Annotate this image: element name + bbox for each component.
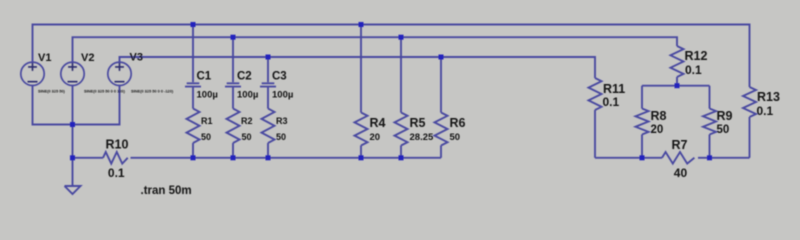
- svg-text:0.1: 0.1: [603, 95, 620, 109]
- svg-text:100µ: 100µ: [237, 90, 258, 101]
- svg-text:50: 50: [276, 132, 286, 142]
- svg-text:0.1: 0.1: [108, 166, 125, 180]
- svg-text:50: 50: [242, 132, 252, 142]
- svg-text:R8: R8: [651, 109, 667, 123]
- svg-text:28.25: 28.25: [410, 132, 434, 143]
- svg-text:C3: C3: [272, 71, 287, 83]
- svg-text:0.1: 0.1: [685, 63, 702, 77]
- svg-text:SINE(0 325 50 0 0 120): SINE(0 325 50 0 0 120): [84, 89, 126, 94]
- svg-text:R11: R11: [603, 82, 625, 96]
- svg-text:V3: V3: [130, 52, 143, 64]
- svg-text:V2: V2: [81, 52, 94, 64]
- svg-text:50: 50: [450, 132, 461, 143]
- svg-text:50: 50: [201, 132, 211, 142]
- svg-text:20: 20: [370, 132, 381, 143]
- svg-text:0.1: 0.1: [757, 104, 774, 118]
- svg-text:R5: R5: [410, 116, 426, 130]
- svg-text:R7: R7: [672, 138, 688, 152]
- svg-text:V1: V1: [38, 52, 51, 64]
- svg-text:SINE(0 325 50 0 0 -120): SINE(0 325 50 0 0 -120): [131, 89, 174, 94]
- svg-text:R2: R2: [241, 116, 253, 126]
- svg-text:R12: R12: [685, 49, 708, 63]
- svg-text:SINE(0 325 50): SINE(0 325 50): [38, 89, 66, 94]
- svg-text:.tran 50m: .tran 50m: [141, 185, 192, 197]
- svg-text:C2: C2: [237, 71, 252, 83]
- svg-text:40: 40: [674, 166, 688, 180]
- svg-text:R13: R13: [757, 90, 780, 104]
- svg-text:R3: R3: [276, 116, 288, 126]
- svg-text:20: 20: [651, 124, 664, 136]
- svg-text:100µ: 100µ: [197, 90, 218, 101]
- svg-text:100µ: 100µ: [272, 90, 293, 101]
- svg-text:50: 50: [717, 124, 730, 136]
- svg-text:R9: R9: [717, 109, 733, 123]
- svg-text:R6: R6: [450, 116, 466, 130]
- svg-text:C1: C1: [197, 71, 212, 83]
- svg-text:R4: R4: [370, 116, 386, 130]
- svg-text:R10: R10: [106, 138, 129, 152]
- svg-text:R1: R1: [201, 116, 213, 126]
